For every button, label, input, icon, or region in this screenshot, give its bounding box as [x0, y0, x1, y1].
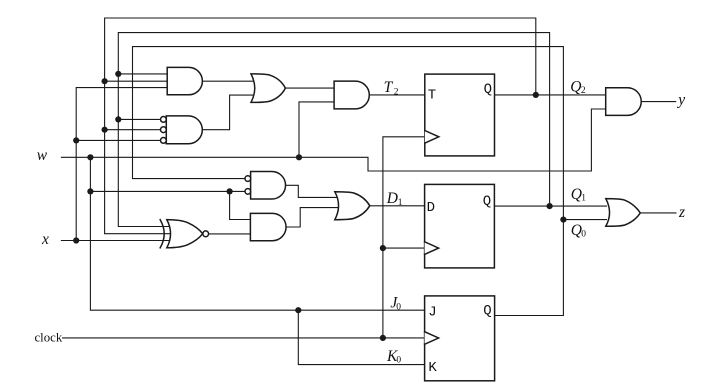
wire w branch to NAND bottom input [90, 190, 245, 192]
svg-text:clock: clock [35, 331, 63, 345]
svg-text:0: 0 [396, 303, 401, 313]
clock triangle U3 [425, 332, 439, 345]
svg-text:2: 2 [581, 86, 586, 96]
svg-text:x: x [41, 231, 49, 248]
wire w branch down to J input (J0) [90, 157, 424, 310]
wire input w line jogging under T flip-flop to y-AND bottom input [61, 109, 605, 171]
or gate OR2 (z output) [606, 199, 641, 227]
inverter bubble XNOR output [203, 231, 209, 237]
junction AND2 middle input / Q2 vertical [102, 127, 108, 133]
wire clock branch to D flip-flop clock [383, 247, 425, 249]
clock triangle U2 [425, 242, 439, 255]
svg-text:1: 1 [398, 198, 403, 208]
wire AND1 bottom input from x vertical [76, 88, 167, 241]
or gate OR3 (D1) [335, 192, 370, 220]
junction AND2 bottom input / x vertical [73, 137, 79, 143]
and gate AND4 (y output) [606, 88, 642, 116]
wire NAND2a output to OR3 top input [286, 185, 338, 197]
wire K0 branch from J0 line to K input [298, 310, 424, 364]
wire z output [640, 212, 676, 214]
wire Q1 feedback rail (top rail 2) and XNOR top input [118, 33, 549, 227]
junction AND2 top input / Q1 vertical [115, 116, 121, 122]
wire y output [641, 101, 676, 103]
svg-text:w: w [37, 147, 48, 164]
svg-text:z: z [678, 204, 685, 221]
junction w line / AND3 riser [296, 154, 302, 160]
clock triangle U1 [425, 131, 439, 144]
junction w line / w vertical [87, 154, 93, 160]
svg-text:D: D [386, 190, 398, 207]
wire input x line [61, 240, 168, 242]
junction clock line / clock riser [380, 335, 386, 341]
svg-text:0: 0 [396, 356, 401, 366]
wire AND2 middle bubbled input from Q2 vertical [105, 129, 161, 131]
wire w branch down to AND2b top input [230, 191, 251, 219]
wire AND2b output to OR3 bottom input [286, 208, 338, 227]
flip-flop U1 (T flip-flop) box [425, 74, 495, 156]
inverter bubble NAND2a bottom input [245, 189, 251, 195]
inverter bubble NAND2a top input [245, 176, 251, 182]
wire D1: OR3 output to D input [370, 205, 425, 207]
svg-text:T: T [384, 79, 394, 96]
and gate AND3 (2-input, T2) [334, 81, 369, 109]
wire AND1 output to OR1 top input [202, 80, 254, 82]
junction w vertical / NAND input line [87, 188, 93, 194]
wire Q2 feedback rail (top rail 1) and XNOR middle input [105, 18, 536, 234]
junction clock riser / D clock [380, 245, 386, 251]
wire Q0 tap to OR2 bottom input [563, 219, 606, 221]
inverter bubble AND2 top input [161, 117, 167, 123]
wire Q0 feedback rail (top rail 3) from JK Q output to NAND top input [133, 47, 564, 316]
junction Q1 line / rail2 riser [547, 203, 553, 209]
junction Q0 riser / OR2 input [560, 217, 566, 223]
junction Q2 line / rail1 riser [533, 92, 539, 98]
svg-text:D: D [427, 200, 435, 216]
wire AND1 middle input from Q2 vertical [105, 80, 168, 82]
or gate OR1 [251, 74, 285, 103]
wire OR1 output to AND3 top input [285, 87, 334, 89]
wire XNOR output to AND2b bottom input [209, 233, 251, 235]
svg-text:J: J [428, 304, 436, 320]
wire AND2 output to OR1 bottom input [202, 95, 254, 130]
wire AND2 top bubbled input from Q1 vertical [118, 118, 160, 120]
svg-text:1: 1 [581, 194, 586, 204]
wire Q2: T flip-flop Q output to y-AND top input [495, 94, 606, 96]
flip-flop U3 (JK flip-flop) box [425, 296, 495, 381]
svg-text:0: 0 [581, 229, 586, 239]
xnor gate body [167, 220, 203, 248]
junction NAND input line / AND2b riser [227, 188, 233, 194]
inverter bubble AND2 bottom input [161, 138, 167, 144]
svg-text:Q: Q [483, 194, 491, 210]
svg-text:2: 2 [394, 87, 399, 97]
wire Q1: D flip-flop Q output to OR2 top input [494, 205, 606, 207]
junction AND1 top input / Q1 vertical [115, 71, 121, 77]
nand-style gate NAND2a (2 inverted inputs) [251, 172, 286, 200]
wire AND1 top input from Q1 vertical [118, 73, 167, 75]
flip-flop U2 (D flip-flop) box [425, 184, 495, 268]
wire AND3 bottom input from w line [299, 102, 334, 157]
wire T2: AND3 output to T input [369, 94, 425, 96]
wire clock line to JK clock input [63, 337, 425, 339]
wire AND2 bottom bubbled input from x vertical [76, 139, 160, 141]
svg-text:Q: Q [483, 303, 491, 319]
svg-text:y: y [676, 92, 685, 109]
wire clock riser to T flip-flop clock [383, 137, 425, 338]
and gate AND1 (3-input) [167, 67, 202, 94]
and gate AND2 (3 inverted inputs) [166, 116, 202, 144]
svg-text:Q: Q [570, 78, 581, 95]
junction AND1 middle input / Q2 vertical [102, 78, 108, 84]
inverter bubble AND2 middle input [161, 127, 167, 133]
junction J0 line / K0 branch [295, 307, 301, 313]
junction x line / x vertical [73, 237, 79, 243]
xnor gate back arc [160, 220, 164, 248]
svg-text:T: T [428, 88, 436, 104]
svg-text:K: K [428, 360, 437, 376]
svg-text:Q: Q [484, 82, 492, 98]
and gate AND2b (2-input) [250, 213, 286, 240]
